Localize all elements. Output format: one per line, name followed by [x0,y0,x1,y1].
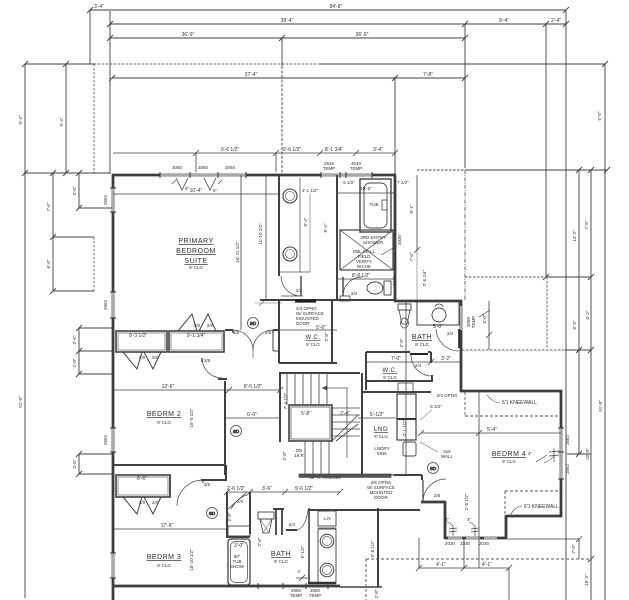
svg-text:5'-8": 5'-8" [301,411,311,417]
niche in bath wall [340,296,350,301]
svg-text:4": 4" [467,517,472,522]
wall: bedrm4 right x=561 [560,390,563,517]
svg-text:2'-6 1/2": 2'-6 1/2" [464,493,469,510]
svg-text:9' CLG: 9' CLG [157,563,171,568]
left horizontal dim at y=64 [25,63,94,65]
svg-text:2/0: 2/0 [139,500,146,505]
svg-text:2/4: 2/4 [351,291,358,296]
toilet bath3 [258,512,274,519]
svg-text:TUB: TUB [370,202,379,207]
svg-text:4': 4' [297,569,301,574]
svg-text:BEDRM 3: BEDRM 3 [147,554,182,561]
dim line 39'-4" row [107,21,569,27]
dim line 36'-9" row [107,35,468,41]
TOP DIM TEXT [94,4,561,78]
svg-text:2030: 2030 [460,541,471,546]
svg-text:7'-0": 7'-0" [571,544,576,553]
svg-text:3060: 3060 [225,165,236,170]
dim row y=153 above top wall [113,152,395,154]
svg-text:9' CLG: 9' CLG [415,342,429,347]
wall: bedrm4 entry y=502 [421,501,446,504]
svg-text:51'-0": 51'-0" [598,400,603,412]
bedrm4 bottom casement Vs [452,526,454,536]
dashed opng laundry [371,474,394,476]
wall: bedrm4 jog x=506 [505,515,508,539]
LEFT ROTATED TEXT [18,115,108,468]
svg-text:L.N: L.N [323,516,330,521]
svg-text:SHOWER: SHOWER [363,240,384,245]
window 3060 x3 top wall [160,174,246,176]
linen box [228,526,250,536]
svg-text:6'-6": 6'-6" [46,259,51,268]
wall: bath1 west x=337 [336,175,338,300]
wall: hall-bath3 x=250 [249,492,251,534]
svg-text:2'-6 1/4": 2'-6 1/4" [422,269,427,286]
svg-text:2/4: 2/4 [447,331,454,336]
diagonals [332,415,358,441]
svg-text:SINK: SINK [377,451,388,456]
svg-text:6'-6": 6'-6" [137,476,147,482]
niche band inner line [299,178,301,272]
svg-text:12'-6": 12'-6" [162,384,175,390]
tick line y=173 [24,172,110,174]
svg-text:5'-8 1/2": 5'-8 1/2" [370,540,375,557]
dim y=492 hall bottom [227,491,340,493]
svg-text:3'-2": 3'-2" [441,356,451,362]
svg-text:2/0: 2/0 [207,323,214,328]
svg-text:2/0: 2/0 [139,355,146,360]
lower run treads [304,441,306,474]
wall: W.C.2 east x=431 [430,352,432,363]
wall: corridor-bedrm3 x=227 [225,465,227,481]
svg-text:5 1/2": 5 1/2" [430,404,442,409]
L.N closet box [318,511,336,526]
svg-text:9'-1 3/4": 9'-1 3/4" [187,333,206,339]
svg-text:DOOR: DOOR [374,495,388,500]
svg-text:10'-4": 10'-4" [190,188,203,194]
windows 2662 left wall [112,188,114,212]
svg-text:5'-0": 5'-0" [482,314,487,323]
dashed kneewall lower [505,490,562,492]
dim line 84'-8" [87,7,569,13]
svg-text:BEDROOM: BEDROOM [176,248,216,255]
window 3050 bath2 right [460,306,462,330]
door arc hall below PBS band [281,276,301,296]
svg-text:6'-2": 6'-2" [585,310,590,319]
svg-text:6'1 KNEEWALL: 6'1 KNEEWALL [524,504,559,510]
dashed roofline bottom [366,558,591,560]
svg-text:8'-5 1/2": 8'-5 1/2" [244,384,263,390]
cabinet chase [398,383,413,392]
wall: hall x=422 [421,475,423,480]
door arc bath2 [436,329,459,351]
svg-text:SUITE: SUITE [184,258,207,265]
vanity counter [417,302,459,325]
svg-text:5'-0": 5'-0" [433,324,443,330]
bedrm4 window dim flag [553,448,555,462]
svg-text:3060: 3060 [198,165,209,170]
svg-text:3060: 3060 [172,165,183,170]
svg-text:9' CLG: 9' CLG [306,342,320,347]
svg-text:TEMP: TEMP [290,593,303,598]
smoke detector SD hall upper [248,318,259,329]
svg-text:36'-9": 36'-9" [356,32,369,38]
svg-text:SD: SD [250,321,257,326]
dim y=568 bottom [419,567,509,569]
svg-text:6'-1/2": 6'-1/2" [300,545,305,558]
svg-text:2030: 2030 [445,541,456,546]
wall: bath3 east x=309 [308,508,310,584]
svg-text:2/6: 2/6 [204,358,211,363]
svg-text:2'-0": 2'-0" [72,459,77,468]
shower 3rd entry with X [340,230,393,270]
svg-text:2/6: 2/6 [233,330,240,335]
svg-text:9' CLG: 9' CLG [157,420,171,425]
tub [364,183,387,228]
roof dashed right [462,170,565,350]
mini dim 4' bath3 [296,577,310,579]
svg-text:TEMP: TEMP [323,166,336,171]
left vertical dim line 2 [65,64,67,173]
svg-text:2/0: 2/0 [152,500,159,505]
wall: primary suite east / hall x=279 [278,175,280,276]
wall: W.C.2 west x=366 [365,352,367,390]
wall: W.C.1 room box [260,299,395,301]
svg-text:8'-8 1/2": 8'-8 1/2" [352,273,371,279]
svg-text:37'-4": 37'-4" [245,72,258,78]
svg-text:SHOW: SHOW [230,564,245,569]
svg-text:BATH: BATH [271,551,291,558]
svg-text:6'1 KNEEWALL: 6'1 KNEEWALL [502,400,537,406]
svg-text:2/0: 2/0 [152,355,159,360]
kneewall leaders [510,506,522,516]
svg-text:3'-4": 3'-4" [94,4,104,10]
svg-text:SD: SD [209,511,216,516]
svg-text:2/4: 2/4 [289,522,296,527]
bath3 door [297,510,308,530]
dim verticals right of tub [416,175,418,250]
vertical dim segs near bay [78,328,80,374]
wall: laundry top y=392 [362,391,431,393]
svg-text:7'-8": 7'-8" [423,72,433,78]
wall: stair top y=373 [279,372,360,374]
niche circles (columns) in PBS east band [283,189,297,203]
vanity band [318,529,336,583]
dim line 37'-4" / 7'-8" row [109,75,468,81]
svg-text:2'-1 1/2": 2'-1 1/2" [402,419,407,436]
dim vertical x=406 [405,301,407,475]
windows bottom wall bedrm3/bath [258,585,322,587]
svg-text:10'-6": 10'-6" [360,186,372,191]
leader 5 1/2 [420,410,432,420]
RIGHT ROTATED TEXT [482,111,603,586]
svg-text:16'-0 1/2": 16'-0 1/2" [189,408,194,427]
bifold doors left closet (open down) [123,352,142,369]
closet box left (9'-3 1/2") [116,331,167,352]
dim y=330 wc1 [279,329,337,331]
direction arrow [322,388,347,458]
svg-text:3'-6": 3'-6" [262,486,272,492]
svg-text:2/0: 2/0 [237,499,244,504]
wall: W.C.2 bottom y=381 [366,380,433,382]
closet box right (opens to PBS) [169,331,224,352]
shower/tub 60" [228,539,250,585]
svg-text:2'-4": 2'-4" [340,411,350,417]
svg-text:2/6: 2/6 [434,493,441,498]
svg-text:2646: 2646 [392,275,397,286]
svg-text:2662: 2662 [103,194,108,205]
dim 5'-4 y=433 [421,432,561,434]
vertical dim lines inside PBS [240,175,242,330]
svg-text:2/4 OPNG: 2/4 OPNG [437,393,458,398]
wall: left exterior [112,174,115,600]
svg-text:BEDRM 4: BEDRM 4 [492,451,527,458]
wall: upper right exterior x=395 [394,175,397,301]
svg-text:9' CLG: 9' CLG [502,459,516,464]
svg-text:8'-4": 8'-4" [323,223,328,232]
vertical dim segment 3'-0" [78,173,80,208]
wall: bedrm4 jog y=516 [506,515,562,518]
laundry sink [403,442,416,456]
svg-text:8'-4": 8'-4" [303,217,308,226]
svg-text:2/4: 2/4 [415,363,422,368]
svg-text:6'-0": 6'-0" [247,412,257,418]
svg-text:DOOR: DOOR [296,321,310,326]
svg-text:5'-1/2": 5'-1/2" [370,412,384,418]
svg-text:9'-4": 9'-4" [499,18,509,24]
svg-text:51'-0": 51'-0" [18,396,23,408]
dim y=277 bath1 bottom [337,278,395,280]
svg-text:SD: SD [430,466,437,471]
wall: stair west x=280 [279,373,281,442]
wall: bedrm4 west low x=445 [444,501,447,539]
svg-text:9'-6 1/2": 9'-6 1/2" [295,486,314,492]
svg-text:8'-1 3/4": 8'-1 3/4" [325,147,344,153]
dim y=529 bedrm3 [113,528,226,530]
dashed kneewall upper [366,392,591,600]
svg-text:3'-4": 3'-4" [373,147,383,153]
svg-text:2/6: 2/6 [204,482,211,487]
dim extension verticals top [89,10,91,64]
wall: corridor x=225 [224,381,226,475]
tub platform [360,179,391,232]
svg-text:4'-1": 4'-1" [482,562,492,568]
smoke detector SD bedrm4 hall [428,463,439,474]
svg-text:9' CLG: 9' CLG [383,375,397,380]
svg-text:8'-1": 8'-1" [409,204,414,213]
svg-text:4": 4" [445,517,450,522]
smoke detector SD hall lower [207,508,218,519]
vertical dim seg near bedrm3 bay [78,454,80,474]
svg-text:2662: 2662 [565,463,570,474]
svg-text:2'-8": 2'-8" [374,589,379,598]
svg-text:9' CLG: 9' CLG [274,559,288,564]
svg-text:2662: 2662 [103,434,108,445]
cabinet [397,394,416,440]
svg-text:TEMP: TEMP [471,316,476,329]
svg-text:5'-6": 5'-6" [316,325,326,331]
svg-text:4030: 4030 [397,234,402,245]
wall: toilet nook double walls [275,508,277,535]
dim y=362 bath2/wc2 [366,361,461,363]
wall: top exterior (primary suite + bath) [112,174,396,177]
wall: toilet nook header [273,508,284,510]
wall: bedrm4 kneewall top y=391 [460,390,562,393]
svg-text:8'-4": 8'-4" [572,320,577,329]
window jamb ticks [110,172,564,589]
svg-text:2662: 2662 [103,299,108,310]
wall: bath3 west x=227 [226,492,228,537]
svg-text:7'-4 1/2": 7'-4 1/2" [283,392,288,409]
winder treads right [332,407,360,409]
svg-text:18 R: 18 R [294,453,304,458]
svg-text:BEDRM 2: BEDRM 2 [147,411,182,418]
svg-text:3'-0": 3'-0" [234,543,244,549]
bedrm2 door [202,358,222,378]
wall: bedrm2 bottom y=465 [113,464,226,466]
svg-text:2'-0": 2'-0" [282,451,287,460]
svg-text:9' CLG: 9' CLG [189,265,203,270]
wall: laundry bottom y=475 [356,474,371,476]
niche leader [381,248,393,255]
svg-text:W.C.: W.C. [306,335,321,341]
wall: bottom bedrm3/bath y=586 [112,585,340,588]
laundry dim y=418 [358,417,396,419]
svg-text:9'-3 1/2": 9'-3 1/2" [129,333,148,339]
svg-text:11'-10 1/2": 11'-10 1/2" [258,223,263,245]
railing bar bottom [299,474,391,477]
toilet bath1 [384,281,391,295]
wall: W.C.2 box top y=352 [366,351,410,353]
window 2662 bedrm4 right [560,428,562,479]
2x6 wall leader [420,442,438,452]
svg-text:4'-1": 4'-1" [436,562,446,568]
svg-text:7'-6": 7'-6" [46,202,51,211]
bifold doors right closet (open up) [178,314,197,331]
dim y=539 bedrm4 right [507,538,579,540]
dashed first-floor outline left [94,64,320,291]
hall closet diagonal door [231,495,247,509]
vertical dim segment 7'-6"/6'-6" [52,173,54,291]
svg-text:2'-0": 2'-0" [72,358,77,367]
wall: bedrm2 entry jambs y=329 [225,329,233,331]
wall: bath3 area top y=510 [308,509,420,511]
svg-text:5'-4": 5'-4" [487,427,497,433]
svg-text:36'-9": 36'-9" [182,32,195,38]
svg-text:9'-4": 9'-4" [59,117,64,126]
svg-text:36" H. RAILING: 36" H. RAILING [309,475,341,480]
smoke detector SD corridor [231,426,242,437]
svg-text:2'-8": 2'-8" [324,332,329,341]
svg-text:BATH: BATH [412,334,432,341]
hall jog left of W.C.1 [272,330,274,351]
wall: W.C.2 door corner x=432 [431,375,433,381]
svg-text:6": 6" [213,188,218,193]
svg-text:16'-11 1/2": 16'-11 1/2" [235,241,240,263]
wall: bath2 top y=301 [394,300,462,303]
svg-text:2662: 2662 [565,434,570,445]
svg-text:SD: SD [233,429,240,434]
svg-text:2'-6": 2'-6" [257,537,262,546]
svg-text:LND: LND [374,426,389,433]
svg-text:84'-8": 84'-8" [330,4,343,10]
svg-text:TEMP: TEMP [309,593,322,598]
svg-text:16'-2": 16'-2" [584,574,589,586]
dim y=389 bedrm2 [113,389,281,391]
kneewall small arrows bedrm4 right [536,455,547,462]
wall: bath2 right x=461 [460,300,463,392]
svg-text:2'-8": 2'-8" [227,512,232,521]
svg-text:2/4: 2/4 [296,288,303,293]
svg-text:PRIMARY: PRIMARY [178,238,213,245]
svg-text:9'-4": 9'-4" [18,115,23,124]
svg-text:2/6: 2/6 [265,330,272,335]
svg-text:7 1/2": 7 1/2" [397,180,409,185]
wall: closet x=378 [377,508,379,587]
landing box [289,405,332,441]
windows in exterior walls (gray band) [113,175,561,586]
windows 2030 bedrm4 bottom [448,537,462,539]
bedrm3 door [177,480,203,506]
wall: bedrm3 entry y=480 [201,479,227,481]
svg-text:39'-4": 39'-4" [281,18,294,24]
LEFT SIDE DIMS [22,61,112,598]
dim y=194 inside PBS [113,193,278,195]
dim vertical x=479 bedrm4 [478,392,480,568]
wall: linen bottom y=537 [226,536,250,538]
dim y=418 corridor [226,417,281,419]
wall: stair/laundry x=362 [361,373,363,475]
svg-text:7'-6": 7'-6" [409,252,414,261]
toilet bath2 [398,304,411,310]
svg-text:15'-10 1/2": 15'-10 1/2" [189,549,194,571]
svg-text:17'-6": 17'-6" [161,523,174,529]
RIGHT SIDE DIM VERTICALS [543,24,605,600]
svg-text:2/0: 2/0 [194,323,201,328]
door arc bath1 lower [343,277,362,296]
svg-text:NICHE: NICHE [357,264,371,269]
bedrm2 french doors top [233,330,253,350]
svg-text:7'-8": 7'-8" [584,220,589,229]
svg-text:4'-1 1/2": 4'-1 1/2" [302,188,319,193]
svg-text:9' CLG: 9' CLG [374,434,388,439]
svg-text:4": 4" [528,451,533,456]
svg-text:WALL: WALL [441,454,454,459]
svg-text:2'-6 1/2": 2'-6 1/2" [227,486,246,492]
closet right walls [169,475,171,497]
svg-text:14'-2": 14'-2" [572,230,577,242]
svg-text:9'-6 1/2": 9'-6 1/2" [221,147,240,153]
surface mounted door dark band on W.C.1 top [295,299,316,302]
svg-text:7'-0": 7'-0" [391,356,401,362]
wall: closet bottom y=587 [340,586,382,588]
svg-text:TEMP: TEMP [350,166,363,171]
wall: bedrm4 bottom y=538 [444,537,507,540]
left vertical dim line 51'-0" [24,64,26,598]
dim vertical x=489 [488,301,490,350]
svg-text:2'-8": 2'-8" [399,338,404,347]
svg-text:9'-6 1/2": 9'-6 1/2" [283,147,302,153]
svg-text:2'-4": 2'-4" [551,18,561,24]
svg-text:W.C.: W.C. [383,368,398,374]
casement marks under top windows [176,178,188,190]
svg-text:22'-0": 22'-0" [585,448,590,460]
treads upper run [286,373,288,405]
right roof horizontal y=170 [465,169,607,171]
svg-text:5 1/2": 5 1/2" [343,180,355,185]
window 2646/4040 bath top [321,174,372,176]
svg-text:5'-0": 5'-0" [597,111,602,120]
